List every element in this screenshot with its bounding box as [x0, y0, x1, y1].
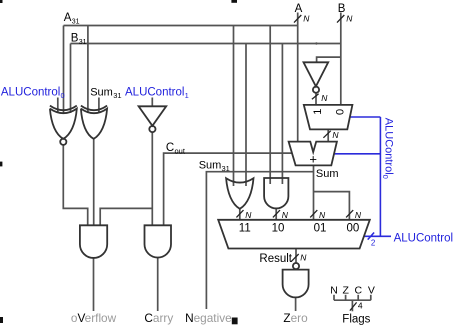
svg-text:Zero: Zero: [283, 311, 308, 325]
svg-text:N: N: [330, 284, 338, 296]
label A31: [64, 12, 80, 26]
svg-text:B: B: [71, 32, 79, 44]
blue wire ALUControl0 to adder Cin: [334, 153, 380, 155]
svg-text:4: 4: [358, 301, 363, 311]
selection handle top-left: [0, 0, 3, 3]
svg-text:0: 0: [334, 109, 346, 115]
svg-text:N: N: [319, 210, 326, 220]
selection handle bottom-middle: [232, 318, 238, 325]
label B31: [71, 32, 87, 46]
svg-text:2: 2: [371, 239, 376, 248]
svg-text:Carry: Carry: [144, 311, 173, 325]
wire AND output to mux input 10: [275, 209, 277, 220]
wire oVerflow output: [93, 258, 95, 311]
svg-text:N: N: [355, 210, 362, 220]
svg-text:C: C: [166, 142, 174, 154]
svg-text:A: A: [64, 12, 72, 24]
wire N flag stub: [333, 295, 335, 300]
wire B31 horizontal: [71, 43, 341, 45]
slash bus N on mux input 01: [310, 210, 317, 217]
wire Cout from adder to carry AND: [164, 153, 293, 225]
svg-text:0: 0: [61, 91, 65, 100]
svg-text:Sum: Sum: [90, 87, 113, 99]
svg-text:00: 00: [347, 222, 360, 234]
and gate A1 (overflow): [80, 225, 107, 258]
inverter U1 (ALUControl1): [139, 106, 167, 132]
slash bus N on OR output: [236, 210, 243, 217]
svg-text:N: N: [245, 210, 252, 220]
inverter U2 (B input): [304, 62, 329, 92]
wire Sum branch to mux input 00: [314, 192, 350, 220]
wire B to inverter U2: [317, 57, 341, 62]
wire Result output: [295, 249, 297, 263]
wire OR gate input from A: [233, 26, 235, 187]
svg-text:N: N: [321, 93, 328, 103]
wire Zero output: [295, 297, 297, 311]
wire A31 branch into XOR: [87, 26, 89, 114]
blue wire ALUControl to mux M2 select: [364, 235, 391, 237]
svg-text:01: 01: [314, 222, 327, 234]
wire mux M1 output to adder: [327, 129, 329, 141]
svg-text:11: 11: [239, 222, 251, 234]
svg-text:ALUControl: ALUControl: [125, 87, 184, 99]
svg-text:Sum: Sum: [316, 168, 339, 180]
label Cout: [166, 142, 186, 155]
wire A31 horizontal: [64, 25, 298, 27]
wire flags bus horizontal: [334, 299, 371, 301]
svg-text:A: A: [295, 3, 303, 15]
zero detect gate (NOR as AND with bubbled input): [283, 263, 309, 297]
wire C flag stub: [357, 295, 359, 300]
svg-text:Z: Z: [342, 284, 349, 296]
svg-text:ALUControl: ALUControl: [1, 87, 60, 99]
wire XNOR output to overflow AND: [63, 145, 87, 225]
wire V flag stub: [370, 295, 372, 300]
or gate O1 (bitwise OR): [226, 178, 253, 209]
mux M2 (4:1): [218, 220, 370, 249]
slash bus N on mux input 00: [346, 210, 353, 217]
svg-text:B: B: [338, 3, 346, 15]
wire Sum31 stub into XOR: [98, 98, 100, 114]
svg-text:Sum: Sum: [199, 159, 222, 171]
wire OR output to mux input 11: [239, 209, 241, 220]
selection handle bottom-left: [0, 317, 3, 323]
and gate A3 (bitwise AND): [264, 178, 288, 208]
svg-text:out: out: [175, 146, 186, 155]
svg-text:1: 1: [185, 91, 189, 100]
wire B31 vertical into XNOR: [70, 44, 72, 114]
wire XOR output to overflow AND: [93, 139, 95, 226]
svg-text:31: 31: [222, 164, 230, 173]
label Sum31 (top left): [90, 87, 121, 100]
junction dot on B31 wire: [315, 42, 317, 44]
svg-text:Result: Result: [259, 253, 292, 265]
svg-text:N: N: [300, 252, 307, 262]
svg-text:31: 31: [72, 18, 80, 25]
adder: [289, 142, 337, 166]
wire AND gate input from A: [269, 26, 271, 185]
wire inverter output to carry AND: [151, 132, 153, 225]
wire OR gate input from B: [245, 44, 247, 187]
slash bus N on inverted B: [312, 94, 319, 100]
wire AND gate input from B: [281, 44, 283, 185]
xnor gate X1: [50, 106, 77, 145]
wire ALUControl0 stub into XNOR: [57, 98, 59, 114]
wire Sum31 tap to Negative: [206, 172, 313, 309]
mux M1 (2:1): [304, 105, 353, 129]
blue wire ALUControl vertical: [379, 117, 381, 236]
wire Z flag stub: [345, 295, 347, 300]
wire inverter U2 output to mux: [315, 93, 317, 105]
wire A31 vertical into XNOR: [63, 26, 65, 114]
wire inverter branch to overflow AND: [100, 208, 152, 225]
slash bus N on Result: [291, 254, 298, 261]
label Sum31 (middle): [199, 159, 230, 172]
wire A bus vertical: [297, 13, 299, 142]
slash bus N on B: [337, 15, 344, 23]
wire ALUControl1 stub into inverter: [151, 98, 153, 107]
svg-text:C: C: [355, 284, 363, 296]
label ALUControl1 (blue): [125, 87, 189, 100]
blue slash bus width 2: [368, 233, 374, 240]
and gate A2 (carry): [145, 225, 172, 257]
selection handle left-middle: [0, 162, 2, 167]
xor gate X2: [81, 106, 107, 139]
svg-text:V: V: [368, 284, 375, 296]
svg-text:N: N: [303, 14, 310, 24]
slash bus N on A: [294, 15, 301, 23]
svg-text:ALUControl0: ALUControl0: [381, 118, 394, 179]
blue wire ALUControl0 to mux M1 select: [350, 116, 381, 118]
svg-text:N: N: [282, 210, 289, 220]
slash bus N on mux M1 output: [323, 131, 330, 138]
svg-text:31: 31: [79, 39, 87, 46]
svg-text:Negative: Negative: [185, 311, 232, 325]
label ALUControl0 (top left, blue): [1, 87, 65, 100]
svg-text:+: +: [309, 151, 317, 166]
wire Sum output: [313, 165, 315, 219]
slash bus 4 on flags: [350, 302, 357, 310]
svg-text:31: 31: [113, 91, 121, 100]
wire flags bus drop: [351, 300, 353, 311]
svg-text:10: 10: [272, 222, 285, 234]
selection handle top-middle: [231, 0, 237, 3]
svg-text:Flags: Flags: [342, 314, 370, 326]
svg-text:N: N: [346, 14, 353, 24]
slash bus N on AND output: [273, 210, 280, 217]
wire Carry output: [157, 258, 159, 311]
svg-text:ALUControl: ALUControl: [394, 233, 453, 245]
svg-text:1: 1: [312, 109, 324, 115]
wire B bus vertical: [340, 13, 342, 105]
svg-text:oVerflow: oVerflow: [71, 311, 117, 325]
svg-text:N: N: [332, 130, 339, 140]
